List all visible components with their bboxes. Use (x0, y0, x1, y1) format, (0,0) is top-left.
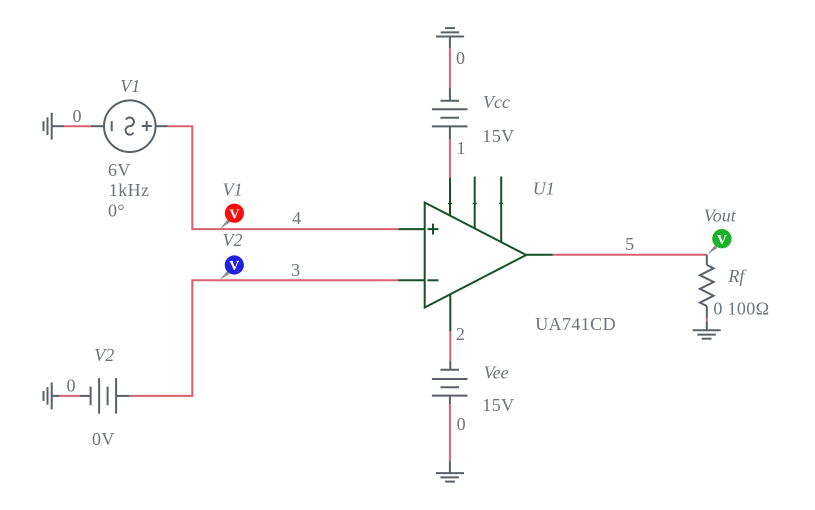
svg-text:15V: 15V (482, 126, 514, 146)
svg-text:V: V (229, 207, 239, 222)
svg-text:V2: V2 (94, 345, 114, 365)
svg-text:Vcc: Vcc (483, 92, 510, 112)
svg-text:0°: 0° (108, 201, 125, 221)
svg-text:5: 5 (625, 234, 634, 254)
svg-text:2: 2 (456, 324, 465, 344)
wire V2 to op-amp minus input (net 3) (116, 280, 425, 396)
wire top ground to Vcc (net 0) (449, 37, 451, 101)
svg-text:V2: V2 (223, 230, 243, 250)
svg-text:V: V (717, 233, 727, 248)
op-amp U1 (425, 177, 553, 332)
wire op-amp pin 2 to Vee (net 2) (449, 331, 451, 370)
svg-text:U1: U1 (533, 178, 555, 198)
svg-text:15V: 15V (482, 395, 514, 415)
probe Vout (green) (707, 229, 731, 255)
wire op-amp output to Vout node (net 5) (553, 254, 707, 256)
svg-text:100Ω: 100Ω (728, 298, 770, 318)
probe V1 (red) (220, 204, 244, 229)
wire Vcc to op-amp pin 1 (net 1) (449, 126, 451, 177)
svg-text:0: 0 (67, 375, 76, 395)
svg-text:1: 1 (457, 138, 466, 158)
ground GND4 (under Rf) (693, 330, 721, 338)
svg-text:4: 4 (292, 208, 301, 228)
battery Vee (432, 370, 468, 396)
wire V1 to op-amp plus input (net 4) (156, 126, 425, 229)
wire ground to V1 (net 0) (52, 125, 104, 127)
svg-text:0V: 0V (92, 429, 115, 449)
wire ground to V2 (net 0) (52, 395, 91, 397)
resistor Rf (700, 255, 714, 330)
ground GND1 (left of V1) (44, 113, 52, 140)
svg-text:1kHz: 1kHz (109, 180, 150, 200)
svg-text:Vee: Vee (484, 362, 509, 382)
svg-text:0: 0 (73, 106, 82, 126)
probe V2 (blue) (220, 255, 244, 280)
svg-text:V1: V1 (223, 180, 243, 200)
svg-text:Vout: Vout (704, 206, 737, 226)
AC source V1 (104, 100, 156, 152)
battery V2 (horizontal) (91, 378, 117, 414)
svg-text:0: 0 (457, 414, 466, 434)
ground GND2 (left of V2) (44, 382, 52, 409)
svg-text:V: V (229, 259, 239, 274)
svg-text:6V: 6V (108, 160, 131, 180)
wire Vee to bottom ground (net 0) (449, 396, 451, 474)
wire stub (net 0 at Rf) (706, 318, 708, 321)
ground GND3 (top, inverted) (436, 28, 464, 36)
svg-text:V1: V1 (120, 76, 140, 96)
svg-text:3: 3 (291, 260, 300, 280)
svg-text:0: 0 (713, 298, 722, 318)
svg-text:UA741CD: UA741CD (535, 314, 616, 334)
svg-text:0: 0 (456, 48, 465, 68)
svg-text:Rf: Rf (727, 266, 747, 286)
battery Vcc (432, 101, 468, 127)
ground GND5 (bottom) (436, 473, 464, 482)
